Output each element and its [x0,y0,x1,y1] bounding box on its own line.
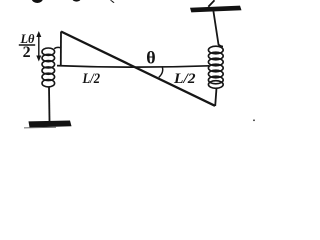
fraction bar [19,44,35,46]
ceiling (hatched block top-right) [190,6,242,13]
angle arc theta [159,66,163,77]
spring K1 (left, lower spring) [42,48,55,87]
svg-text:L/2: L/2 [173,71,196,87]
cropped text descender mark 3 [110,0,114,3]
wire: left bottom connector from spring to ground [48,87,51,122]
stray dot [253,119,255,121]
ground hatch streak [24,126,56,129]
wire: left top connector from rod end to spring [60,32,62,66]
displacement double arrow [36,31,41,62]
cropped text descender mark 2 [73,0,81,2]
cropped text descender mark 1 [32,0,43,3]
rod (bar) [61,32,215,106]
wire: hanger from ceiling to right spring [213,11,223,47]
equilibrium horizontal line [57,66,209,68]
wire: right bottom connector from spring to rod end [215,88,216,106]
svg-text:L/2: L/2 [82,71,101,87]
svg-text:2: 2 [23,44,31,61]
ground (hatched floor block bottom-left) [29,121,72,128]
ceiling hatch tick [208,0,214,7]
spring K2 (right, upper spring) [208,46,223,88]
svg-text:θ: θ [146,48,155,68]
wire: coil top tail to connector [54,47,61,48]
